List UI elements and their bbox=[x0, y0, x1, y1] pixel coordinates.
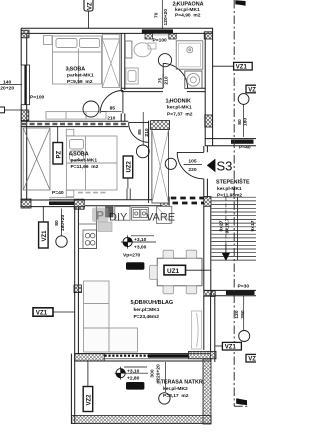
svg-text:300: 300 bbox=[149, 369, 155, 377]
wall bathroom bottom bbox=[121, 88, 205, 91]
closet hallway bbox=[149, 130, 169, 203]
stairs down arrow bbox=[225, 244, 227, 254]
svg-text:UZ1: UZ1 bbox=[167, 268, 180, 275]
svg-text:5|DB/KUH/BLAG: 5|DB/KUH/BLAG bbox=[131, 300, 174, 306]
svg-text:9x17: 9x17 bbox=[250, 220, 256, 231]
svg-text:120+20: 120+20 bbox=[163, 9, 169, 26]
wall room5 bottom lines bbox=[75, 354, 211, 361]
wall divider room3 room4 bbox=[21, 121, 128, 126]
wall terrace bottom hatched bbox=[71, 416, 211, 424]
svg-text:MK1: MK1 bbox=[129, 264, 141, 270]
label VZ2 right cut bbox=[246, 354, 258, 362]
kitchen stove 4 burners bbox=[83, 230, 97, 249]
svg-text:P=7,37 m2: P=7,37 m2 bbox=[167, 111, 193, 117]
svg-text:1|HODNIK: 1|HODNIK bbox=[166, 98, 191, 104]
wall right upper bbox=[205, 28, 212, 146]
bathroom washing machine bbox=[185, 71, 202, 89]
label VZ1 right top bbox=[213, 62, 253, 70]
svg-text:+2,80: +2,80 bbox=[127, 376, 140, 382]
column top-right bbox=[204, 32, 212, 39]
nightstand room4 bottom bbox=[66, 190, 74, 197]
column stair bottom-left bbox=[204, 290, 212, 296]
door text 85/210 room4 rotated bbox=[137, 112, 150, 145]
svg-text:P=9,59 m2: P=9,59 m2 bbox=[67, 79, 93, 85]
room2 kupaona label bbox=[173, 1, 204, 18]
stairs treads bbox=[212, 197, 257, 260]
svg-text:VARE: VARE bbox=[146, 212, 175, 224]
window bathroom piers hatched bbox=[145, 33, 153, 39]
svg-text:8x27: 8x27 bbox=[218, 220, 224, 231]
svg-text:+3,10: +3,10 bbox=[127, 368, 140, 374]
stairs stringer line bbox=[237, 197, 239, 260]
door text 105/220 bbox=[184, 159, 203, 173]
svg-text:VZ: VZ bbox=[248, 87, 256, 93]
svg-text:VZ1: VZ1 bbox=[36, 310, 48, 317]
dim 140 20+20 bbox=[0, 79, 22, 91]
dim 80 180+20 rotated left bbox=[54, 209, 66, 236]
svg-text:85: 85 bbox=[110, 106, 116, 112]
label VZ right cut bbox=[246, 85, 258, 93]
column circle right top bbox=[238, 94, 249, 105]
left edge tiny label box bbox=[0, 107, 5, 113]
svg-text:2|KUPAONA: 2|KUPAONA bbox=[173, 1, 204, 7]
wall hall right upper bbox=[204, 146, 208, 152]
window staircase top bbox=[231, 140, 254, 144]
wall terrace right hatched bbox=[203, 359, 211, 424]
svg-text:85: 85 bbox=[137, 129, 143, 135]
svg-text:280: 280 bbox=[240, 310, 246, 318]
svg-text:S3: S3 bbox=[217, 159, 233, 174]
column bottom-left corner bbox=[21, 199, 31, 208]
wall room5-terrace hatched right segment bbox=[189, 351, 217, 358]
divider wall gray dashes bbox=[22, 123, 126, 126]
svg-text:120: 120 bbox=[234, 310, 240, 318]
column right wall pilaster bbox=[205, 115, 213, 127]
svg-text:UZ2: UZ2 bbox=[127, 161, 133, 173]
S3 marker triangle bbox=[207, 159, 216, 173]
svg-text:P=100: P=100 bbox=[153, 38, 168, 44]
svg-text:105: 105 bbox=[188, 159, 196, 165]
dim 300 220+20 rotated terrace bbox=[149, 362, 165, 392]
nightstand room3 left bbox=[44, 36, 53, 45]
stairs walking line dashed bbox=[225, 197, 227, 246]
svg-text:+3,10: +3,10 bbox=[134, 237, 147, 243]
svg-text:MK2: MK2 bbox=[129, 384, 141, 390]
wall left upper bbox=[21, 28, 27, 207]
label MK2 inverted bbox=[126, 382, 144, 390]
svg-text:STEPENIŠTE: STEPENIŠTE bbox=[216, 178, 250, 186]
wall room4 right bbox=[149, 121, 152, 200]
svg-text:VZ: VZ bbox=[87, 2, 93, 10]
svg-text:P=11,66 m2: P=11,66 m2 bbox=[71, 164, 99, 170]
column left mid (below window) bbox=[21, 110, 29, 121]
svg-text:ker.pl=MK1: ker.pl=MK1 bbox=[134, 307, 160, 313]
label VZ1 horizontal left bbox=[33, 308, 75, 317]
label PZ rotated bbox=[53, 126, 63, 164]
svg-text:210: 210 bbox=[107, 115, 115, 121]
svg-text:210: 210 bbox=[144, 128, 150, 136]
wall room5-terrace hatched left segment bbox=[75, 354, 105, 361]
svg-text:ker.pl-MK1: ker.pl-MK1 bbox=[217, 186, 242, 192]
column below closet bbox=[161, 197, 169, 206]
kitchen sink double bbox=[132, 208, 149, 221]
window bottom wall room4 bbox=[49, 198, 74, 205]
column circle right lower bbox=[239, 331, 250, 342]
svg-text:parket-MK1: parket-MK1 bbox=[71, 158, 98, 164]
svg-text:P=8,17 m2: P=8,17 m2 bbox=[163, 393, 189, 399]
sofa vertical part bbox=[84, 281, 110, 352]
dining chairs bottom bbox=[163, 286, 174, 294]
elevation marker terrace bbox=[115, 367, 149, 382]
column room5 bottom-right bbox=[211, 291, 215, 296]
svg-text:P: P bbox=[96, 209, 104, 223]
svg-text:P=40: P=40 bbox=[239, 145, 251, 151]
glass door leaf room5 right bbox=[192, 311, 202, 349]
elevation marker room5 bbox=[121, 235, 156, 250]
wall room5 right window line bbox=[203, 296, 205, 350]
door text 85/210 room3 bbox=[101, 106, 122, 122]
room4 label bbox=[69, 151, 99, 170]
svg-text:VZ2: VZ2 bbox=[87, 394, 93, 406]
svg-text:P=23,46m2: P=23,46m2 bbox=[134, 314, 160, 320]
svg-text:210: 210 bbox=[164, 76, 170, 84]
door bathroom leaf and arc bbox=[163, 63, 187, 88]
wall stair bottom bbox=[204, 290, 256, 295]
svg-text:P=40: P=40 bbox=[52, 190, 64, 196]
wall bottom room4 bbox=[21, 200, 161, 207]
bathroom washbasin circle bbox=[158, 54, 171, 67]
section flag top bbox=[235, 0, 245, 6]
bathroom washer square bbox=[126, 68, 138, 84]
svg-text:PZ: PZ bbox=[56, 150, 62, 158]
label UZ1 bbox=[164, 265, 211, 275]
column bottom wall mid bbox=[74, 199, 84, 209]
label MK1 inverted bbox=[126, 262, 144, 270]
column top-left bbox=[21, 30, 29, 38]
opening dashes hall-room5 bbox=[171, 198, 204, 203]
label VZ2 top cut bbox=[84, 0, 93, 28]
wardrobe room4 bbox=[23, 128, 50, 190]
sofa horizontal part bbox=[109, 328, 138, 352]
wall stair top bbox=[205, 139, 256, 146]
label VZ1 left rotated bbox=[39, 207, 49, 248]
dining table bbox=[157, 258, 202, 286]
door apartment entry leaf and arc bbox=[177, 152, 204, 178]
door text 75/210 bathroom rotated bbox=[158, 74, 170, 88]
dim 70 120+20 rotated bbox=[153, 0, 169, 29]
svg-text:3|SOBA: 3|SOBA bbox=[66, 67, 86, 73]
svg-text:VZ1: VZ1 bbox=[236, 65, 248, 71]
door room4 leaf and arc bbox=[129, 122, 149, 142]
svg-text:P=4,90 m2: P=4,90 m2 bbox=[175, 12, 201, 18]
label UZ2 rotated bbox=[123, 156, 133, 200]
svg-text:DIY: DIY bbox=[109, 212, 128, 224]
wall room5 left bbox=[75, 207, 79, 415]
wall top bbox=[21, 28, 213, 33]
wardrobe room3 bbox=[102, 39, 119, 88]
svg-text:6|TERASA NATKR.: 6|TERASA NATKR. bbox=[157, 379, 205, 385]
wall hall right lower bbox=[204, 179, 208, 198]
svg-text:80: 80 bbox=[237, 119, 243, 125]
svg-text:P=100: P=100 bbox=[30, 94, 45, 100]
window left wall room3 bbox=[21, 65, 29, 105]
svg-text:ker.pl-MK1: ker.pl-MK1 bbox=[167, 105, 192, 111]
kitchen upper cabinets dashed gray bbox=[78, 192, 107, 194]
lamp circle hallway bbox=[165, 158, 176, 169]
bed room3 bbox=[53, 36, 102, 84]
dim 80 180 rotated right bbox=[237, 105, 249, 138]
svg-text:VZ: VZ bbox=[248, 357, 256, 363]
stepeniste label bbox=[216, 178, 250, 199]
kitchen cabinet white bbox=[115, 206, 130, 220]
label VZ2 terrace rotated bbox=[83, 361, 93, 412]
svg-text:9x16,7: 9x16,7 bbox=[224, 218, 230, 233]
svg-text:VZ1: VZ1 bbox=[225, 345, 237, 351]
kitchen fridge bbox=[156, 206, 171, 223]
hatch stub above closet bbox=[151, 121, 170, 130]
bathroom toilet bowl bbox=[134, 43, 151, 57]
window top wall bathroom bbox=[142, 29, 173, 35]
bathroom shower bbox=[176, 41, 203, 69]
svg-text:VZ1: VZ1 bbox=[42, 230, 48, 242]
bathroom toilet tank bbox=[125, 41, 132, 58]
svg-text:220: 220 bbox=[188, 167, 196, 173]
nightstand room3 right bbox=[103, 34, 120, 39]
svg-text:Vp=270: Vp=270 bbox=[123, 253, 141, 259]
column circle outside left bbox=[56, 236, 67, 247]
room3 label bbox=[66, 67, 94, 86]
bed room4 bbox=[67, 136, 118, 190]
lamp circle room4 bbox=[136, 145, 149, 158]
nightstand room4 top bbox=[66, 129, 74, 136]
wall terrace left inner bbox=[71, 354, 74, 424]
stairs dim rotated bbox=[218, 218, 230, 233]
svg-text:P=11,98m2: P=11,98m2 bbox=[217, 192, 242, 198]
room5 label bbox=[131, 300, 174, 320]
label VZ1 bottom right bbox=[215, 342, 242, 350]
svg-text:P=30: P=30 bbox=[238, 284, 250, 290]
dining chair left bbox=[150, 265, 158, 279]
svg-text:80: 80 bbox=[54, 220, 60, 226]
bathroom small shelf bbox=[148, 43, 156, 49]
svg-text:ker.pl-MK1: ker.pl-MK1 bbox=[175, 7, 200, 13]
section line dash-dot bbox=[234, 0, 249, 406]
window staircase bottom P=30 bbox=[226, 291, 255, 295]
column room5 left bbox=[74, 285, 81, 293]
svg-text:+3,00: +3,00 bbox=[134, 244, 147, 250]
hodnik label bbox=[166, 98, 193, 117]
svg-text:20+20: 20+20 bbox=[0, 85, 14, 91]
svg-text:ker.pl-MK2: ker.pl-MK2 bbox=[163, 386, 188, 392]
svg-text:parket-MK1: parket-MK1 bbox=[67, 73, 94, 79]
kitchen counter outline bbox=[78, 207, 96, 249]
kitchen gray island bbox=[98, 222, 112, 232]
watermark P logo bbox=[92, 208, 109, 223]
sliding door dashes room5-terrace bbox=[105, 355, 149, 357]
column hall right / stair bbox=[204, 197, 211, 207]
lamp circle room3 bbox=[83, 101, 99, 117]
door room3 leaf and arc bbox=[100, 90, 123, 113]
svg-text:70: 70 bbox=[153, 12, 159, 18]
svg-text:220+20: 220+20 bbox=[155, 364, 161, 381]
section flag bottom bbox=[236, 398, 247, 405]
dresser room3 bbox=[46, 112, 106, 120]
kitchen dark appliance bbox=[106, 207, 114, 217]
wall room5 right bbox=[204, 207, 215, 363]
wall bathroom left bbox=[121, 33, 125, 121]
column circle terrace bbox=[159, 393, 170, 404]
svg-text:4|SOBA: 4|SOBA bbox=[69, 151, 89, 157]
dining chairs top bbox=[163, 250, 174, 258]
terrace label bbox=[157, 379, 205, 399]
dim 120 280 rotated bbox=[234, 296, 246, 331]
